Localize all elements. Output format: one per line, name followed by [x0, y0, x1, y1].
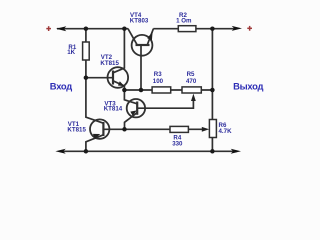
wire bottom rail: [60, 150, 237, 152]
R5 wiper arrow: [191, 94, 196, 101]
svg-text:KT814: KT814: [104, 106, 123, 113]
wire right vertical rail x=212.4: [211, 29, 213, 152]
wire VT1 emitter down to bottom rail: [86, 135, 104, 152]
svg-text:470: 470: [186, 78, 197, 85]
resistor R6: [209, 120, 216, 138]
node dot R5 right / right rail: [210, 88, 215, 93]
wire VT2 emitter to node: [113, 81, 124, 90]
transistor VT1 emitter arrow: [93, 134, 100, 139]
svg-text:R5: R5: [187, 71, 195, 78]
wire VT3 collector from node: [124, 90, 137, 104]
svg-text:1K: 1K: [67, 49, 75, 56]
svg-text:330: 330: [172, 141, 183, 148]
node dot VT1 emitter on bottom rail: [84, 149, 89, 154]
svg-text:KT815: KT815: [67, 126, 86, 133]
transistor VT4 KT803: [132, 35, 153, 56]
svg-text:KT815: KT815: [100, 60, 119, 67]
wire VT3 emitter down to VT1 base node: [125, 113, 138, 130]
svg-text:R3: R3: [154, 71, 162, 78]
transistor VT3 KT814: [127, 99, 145, 117]
wire mid horizontal y=90: [124, 89, 212, 91]
plus sign input: [46, 26, 51, 31]
transistor VT4 emitter arrow: [147, 32, 152, 41]
node dot VT2 base tap: [84, 75, 89, 80]
svg-text:KT803: KT803: [130, 17, 149, 24]
node dot VT2 emitter / VT3 collector: [122, 88, 127, 93]
wire VT2 collector to top rail: [113, 29, 124, 73]
plus sign output: [247, 26, 252, 31]
wire feedback y=129.3 to R6 wiper: [125, 128, 206, 130]
svg-text:4.7K: 4.7K: [219, 128, 233, 135]
svg-text:Вход: Вход: [50, 80, 72, 91]
transistor VT3 emitter arrow (PNP, points to bar): [130, 110, 137, 115]
node dot VT1 base / VT3 emitter: [122, 127, 127, 132]
resistor R5: [182, 87, 201, 93]
terminal arrow bottom-right: [231, 149, 241, 154]
R6 wiper arrow: [202, 127, 209, 132]
node dot VT4 base on mid wire: [139, 88, 144, 93]
transistor VT2 emitter arrow: [118, 81, 125, 86]
wire left vertical branch (R1 / VT1 collector): [86, 29, 104, 124]
svg-text:Выход: Выход: [233, 80, 263, 91]
wire VT2 base: [86, 77, 113, 79]
terminal arrow bottom-left: [55, 149, 65, 154]
node dot output tap top rail: [210, 26, 215, 31]
node dot top of R1: [84, 26, 89, 31]
node dot right rail on bottom rail: [210, 149, 215, 154]
wire top-right rail: [153, 28, 237, 30]
terminal arrow top-right: [232, 26, 242, 31]
svg-text:1 Om: 1 Om: [176, 18, 192, 25]
resistor R4: [170, 126, 188, 132]
transistor VT2 KT815: [108, 67, 129, 88]
wire top-left rail: [57, 28, 128, 30]
wire VT1 base: [103, 128, 124, 130]
wire VT4 base down: [140, 45, 142, 90]
terminal arrow top-left: [56, 26, 66, 31]
transistor VT4 leads: [128, 29, 137, 45]
resistor R1: [83, 42, 90, 60]
svg-text:100: 100: [153, 78, 164, 85]
wire VT3 base to R5 wiper: [137, 98, 193, 109]
resistor R2: [178, 26, 196, 32]
node dot VT4/VT2 collectors: [122, 26, 127, 31]
resistor R3: [152, 87, 171, 93]
transistor VT1 KT815: [90, 119, 109, 138]
